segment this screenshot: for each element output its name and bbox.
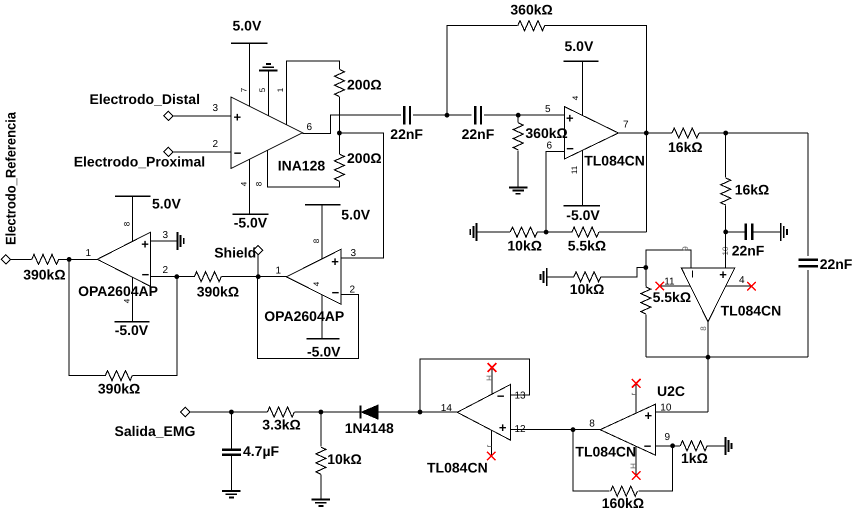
- svg-text:−: −: [497, 388, 505, 403]
- svg-text:+: +: [141, 237, 149, 252]
- svg-text:5.5kΩ: 5.5kΩ: [568, 238, 606, 254]
- svg-text:9: 9: [665, 432, 671, 443]
- svg-text:-5.0V: -5.0V: [566, 207, 600, 223]
- svg-text:390kΩ: 390kΩ: [98, 381, 140, 397]
- svg-text:1: 1: [276, 87, 285, 92]
- svg-text:3.3kΩ: 3.3kΩ: [262, 417, 300, 433]
- svg-text:4: 4: [739, 275, 745, 286]
- svg-text:Electrodo_Proximal: Electrodo_Proximal: [74, 154, 206, 170]
- svg-text:390kΩ: 390kΩ: [197, 284, 239, 300]
- svg-text:7: 7: [239, 87, 248, 92]
- svg-text:2: 2: [163, 265, 169, 276]
- svg-text:5: 5: [545, 104, 551, 115]
- svg-text:OPA2604AP: OPA2604AP: [78, 283, 158, 299]
- svg-text:H: H: [485, 375, 494, 381]
- svg-text:11: 11: [570, 165, 579, 174]
- svg-text:14: 14: [441, 403, 453, 414]
- svg-text:+: +: [234, 110, 242, 125]
- svg-text:U2C: U2C: [657, 383, 685, 399]
- svg-text:+: +: [566, 111, 574, 126]
- svg-text:160kΩ: 160kΩ: [602, 495, 644, 511]
- svg-text:-5.0V: -5.0V: [307, 343, 341, 359]
- svg-text:TL084CN: TL084CN: [575, 444, 636, 460]
- svg-text:2: 2: [350, 285, 356, 296]
- svg-text:+: +: [499, 420, 507, 435]
- svg-text:TL084CN: TL084CN: [584, 153, 645, 169]
- svg-text:11: 11: [664, 277, 675, 288]
- svg-text:+: +: [331, 254, 339, 269]
- svg-text:Electrodo_Referencia: Electrodo_Referencia: [3, 112, 19, 245]
- svg-text:TL084CN: TL084CN: [721, 302, 782, 318]
- svg-text:6: 6: [547, 141, 553, 152]
- svg-text:5.5kΩ: 5.5kΩ: [653, 289, 691, 305]
- svg-text:−: −: [332, 285, 340, 300]
- svg-text:8: 8: [123, 221, 132, 226]
- svg-text:TL084CN: TL084CN: [427, 459, 488, 475]
- svg-text:4: 4: [239, 181, 248, 186]
- svg-text:5: 5: [258, 87, 267, 92]
- svg-text:16kΩ: 16kΩ: [735, 182, 770, 198]
- svg-text:Electrodo_Distal: Electrodo_Distal: [90, 91, 200, 107]
- svg-text:-5.0V: -5.0V: [234, 215, 268, 231]
- svg-text:r: r: [629, 392, 638, 395]
- svg-text:13: 13: [515, 391, 527, 402]
- svg-text:10kΩ: 10kΩ: [507, 238, 542, 254]
- svg-text:2: 2: [213, 139, 219, 150]
- svg-text:8: 8: [589, 418, 595, 429]
- svg-text:10kΩ: 10kΩ: [327, 451, 362, 467]
- svg-text:5.0V: 5.0V: [233, 18, 262, 34]
- svg-text:Shield: Shield: [214, 245, 256, 261]
- svg-text:−: −: [644, 439, 652, 454]
- svg-text:1kΩ: 1kΩ: [681, 450, 708, 466]
- svg-text:6: 6: [307, 122, 313, 133]
- svg-text:r: r: [484, 444, 493, 447]
- svg-text:200Ω: 200Ω: [347, 77, 382, 93]
- svg-text:10kΩ: 10kΩ: [570, 281, 605, 297]
- svg-text:200Ω: 200Ω: [347, 150, 382, 166]
- svg-text:22nF: 22nF: [462, 126, 495, 142]
- svg-text:Salida_EMG: Salida_EMG: [115, 423, 196, 439]
- svg-text:8: 8: [312, 238, 321, 243]
- svg-text:5.0V: 5.0V: [565, 38, 594, 54]
- svg-text:1: 1: [86, 248, 92, 259]
- svg-text:H: H: [629, 463, 638, 469]
- svg-text:9: 9: [681, 246, 690, 251]
- svg-text:4.7µF: 4.7µF: [243, 443, 280, 459]
- svg-text:−: −: [566, 141, 574, 156]
- svg-text:+: +: [719, 267, 727, 282]
- svg-text:-5.0V: -5.0V: [115, 322, 149, 338]
- svg-text:8: 8: [699, 326, 708, 331]
- svg-text:3: 3: [213, 103, 219, 114]
- svg-text:−: −: [142, 267, 150, 282]
- svg-text:−: −: [234, 146, 242, 161]
- svg-text:4: 4: [312, 281, 321, 286]
- svg-text:INA128: INA128: [278, 158, 326, 174]
- svg-text:22nF: 22nF: [732, 242, 765, 258]
- svg-text:4: 4: [571, 95, 580, 100]
- svg-text:8: 8: [255, 181, 264, 186]
- svg-text:10: 10: [660, 403, 672, 414]
- svg-text:360kΩ: 360kΩ: [510, 2, 552, 18]
- svg-text:OPA2604AP: OPA2604AP: [264, 308, 344, 324]
- svg-text:1: 1: [276, 266, 282, 277]
- svg-text:+: +: [645, 408, 653, 423]
- svg-text:7: 7: [623, 120, 629, 131]
- svg-text:22nF: 22nF: [390, 126, 423, 142]
- svg-text:12: 12: [515, 424, 527, 435]
- svg-text:5.0V: 5.0V: [152, 196, 181, 212]
- svg-text:5.0V: 5.0V: [341, 206, 370, 222]
- svg-text:1N4148: 1N4148: [345, 420, 394, 436]
- svg-text:3: 3: [351, 248, 357, 259]
- svg-text:22nF: 22nF: [820, 256, 853, 272]
- svg-text:390kΩ: 390kΩ: [23, 267, 65, 283]
- svg-text:3: 3: [163, 230, 169, 241]
- svg-text:16kΩ: 16kΩ: [668, 139, 703, 155]
- svg-text:360kΩ: 360kΩ: [525, 125, 567, 141]
